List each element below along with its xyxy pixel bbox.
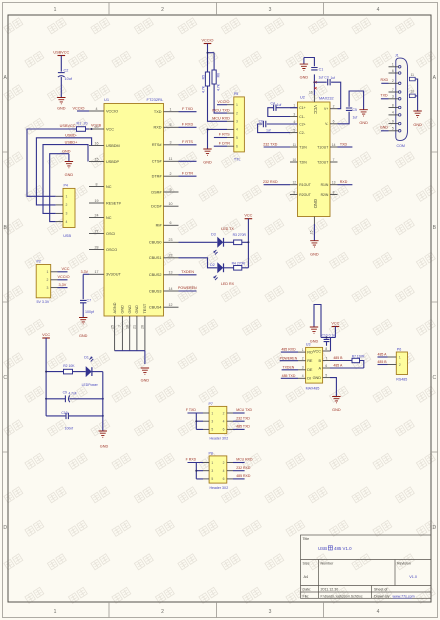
svg-text:7: 7 <box>118 325 122 327</box>
svg-text:RE: RE <box>307 359 313 363</box>
svg-text:11: 11 <box>293 143 297 147</box>
svg-text:GND: GND <box>359 121 368 125</box>
ground (C1) <box>300 64 308 70</box>
svg-text:1: 1 <box>211 411 213 415</box>
svg-text:CBUS4: CBUS4 <box>149 306 162 310</box>
svg-text:2: 2 <box>236 111 238 115</box>
pin 2 J1 <box>398 82 401 85</box>
svg-text:1uf: 1uf <box>353 116 358 120</box>
svg-text:5: 5 <box>211 477 213 481</box>
svg-text:12: 12 <box>169 303 173 307</box>
connector P2 5V 3.3V <box>36 265 51 298</box>
svg-text:GND: GND <box>79 334 88 338</box>
wire CBUS1 to LED D2 <box>179 258 218 268</box>
svg-text:F RTS: F RTS <box>219 133 230 137</box>
wire 485 TXD from P7.6 <box>233 428 245 430</box>
svg-text:6: 6 <box>236 145 238 149</box>
wire POWEREN <box>179 290 197 292</box>
svg-text:NC: NC <box>106 185 112 189</box>
pin 8 J1 <box>398 106 401 109</box>
resistor R7 120R <box>352 358 360 362</box>
svg-text:2: 2 <box>223 411 225 415</box>
wire 485 B from U3.7 <box>330 360 352 362</box>
svg-text:Number: Number <box>321 562 335 566</box>
svg-text:7: 7 <box>325 356 327 360</box>
svg-text:GND: GND <box>57 107 66 111</box>
svg-text:3: 3 <box>47 286 49 290</box>
svg-text:232 RXD: 232 RXD <box>236 466 251 470</box>
pin 9 J1 <box>398 122 401 125</box>
pin 16 VCC U2 top <box>313 95 315 102</box>
svg-text:MCU RXD: MCU RXD <box>236 458 253 462</box>
svg-text:R1OUT: R1OUT <box>299 183 311 187</box>
svg-text:14: 14 <box>169 287 173 291</box>
wire U2.15 to GND <box>313 224 315 241</box>
svg-text:485 RXD: 485 RXD <box>281 348 296 352</box>
pin 14 T1OUT U2 right <box>330 146 338 148</box>
svg-text:4: 4 <box>223 420 225 424</box>
svg-text:8: 8 <box>325 347 327 351</box>
resistor R4 270R <box>234 266 242 271</box>
pin 7 GND U1 bottom <box>121 316 123 351</box>
svg-text:COM: COM <box>397 144 405 148</box>
svg-text:F TXD: F TXD <box>182 107 193 111</box>
svg-text:TXDEN: TXDEN <box>282 365 294 369</box>
wire TXD to J1.3 <box>381 98 389 100</box>
LED D3 (TX) <box>217 237 223 248</box>
svg-text:GND: GND <box>128 305 132 314</box>
svg-text:3: 3 <box>211 420 213 424</box>
svg-text:TXDEN: TXDEN <box>181 270 194 274</box>
svg-text:1uf: 1uf <box>331 76 336 80</box>
svg-text:4: 4 <box>223 469 225 473</box>
svg-text:1: 1 <box>54 7 57 13</box>
wire TXDEN to U3.3 <box>282 369 298 371</box>
pin 16 USBDM U1 left <box>89 145 104 147</box>
wire 232 TXD to U2.11 <box>264 146 290 148</box>
svg-text:8: 8 <box>96 182 98 186</box>
pin 5 J1 <box>398 130 401 133</box>
wire shield to GND <box>415 79 417 111</box>
wire F TXD to P7 pins 1,3,5 <box>188 413 204 429</box>
wire U2.6 V- to C5 <box>338 112 350 124</box>
pin 17 3V3OUT U1 left <box>89 273 104 275</box>
svg-text:21: 21 <box>133 325 137 329</box>
power flag VCCIO <box>204 43 212 45</box>
svg-text:2011.12.30: 2011.12.30 <box>321 588 339 592</box>
svg-text:TTL: TTL <box>234 157 241 161</box>
power flag VCC (LED rail) <box>245 218 253 220</box>
svg-text:3: 3 <box>302 366 304 370</box>
svg-text:3: 3 <box>392 95 394 99</box>
wire F RTS to P5.5 <box>214 137 227 139</box>
resistor R2 10K <box>64 369 73 374</box>
pin 25 AGND U1 bottom <box>114 316 116 351</box>
svg-text:USBD-: USBD- <box>65 134 78 138</box>
svg-text:100pf: 100pf <box>85 310 94 314</box>
svg-text:4: 4 <box>236 128 238 132</box>
svg-text:485 RXD: 485 RXD <box>236 474 251 478</box>
svg-text:VCCB: VCCB <box>91 124 102 128</box>
connector P4 USB <box>63 188 75 227</box>
svg-text:VCCIO: VCCIO <box>72 106 84 110</box>
wire USBVCC to C2 <box>60 56 62 72</box>
svg-text:9: 9 <box>170 188 172 192</box>
pin 6 J1 <box>398 72 401 75</box>
svg-text:OSCO: OSCO <box>106 248 117 252</box>
svg-text:GND: GND <box>121 305 125 314</box>
pin 20 VCC U1 left <box>89 128 104 130</box>
pin 8 R2IN U2 right <box>330 194 338 196</box>
pin 14 CBUS3 U1 right <box>164 290 179 292</box>
svg-text:3: 3 <box>211 469 213 473</box>
svg-text:F DTR: F DTR <box>219 141 230 145</box>
svg-text:TXD: TXD <box>380 94 388 98</box>
svg-text:USBDM: USBDM <box>106 144 120 148</box>
svg-text:2: 2 <box>66 203 68 207</box>
pin 8 NC U1 left <box>89 186 104 188</box>
pin 21 GND U1 bottom <box>136 316 138 351</box>
wire F RXD <box>179 126 197 128</box>
ground (C7) <box>79 318 87 324</box>
wire R7 to 485 A row <box>360 361 364 369</box>
svg-text:3V3OUT: 3V3OUT <box>106 273 121 277</box>
wire P5.4 to GND <box>208 129 228 149</box>
svg-text:6: 6 <box>223 428 225 432</box>
svg-text:4: 4 <box>293 120 295 124</box>
svg-text:5: 5 <box>293 129 295 133</box>
pin 5 GND U3 right <box>323 377 330 379</box>
svg-text:6: 6 <box>170 221 172 225</box>
wire VCC to R2 <box>46 371 63 373</box>
connector P5 TTL <box>234 97 245 152</box>
svg-text:CBUS3: CBUS3 <box>149 289 162 293</box>
capacitor C7 100pf <box>80 300 86 302</box>
svg-text:USB: USB <box>318 546 327 551</box>
svg-text:DSR#: DSR# <box>151 190 162 194</box>
svg-text:DE: DE <box>307 368 313 372</box>
svg-text:15: 15 <box>95 157 99 161</box>
svg-text:23: 23 <box>169 238 173 242</box>
svg-text:19: 19 <box>95 199 99 203</box>
svg-text:232 TXD: 232 TXD <box>236 416 250 420</box>
svg-text:R1: R1 <box>77 122 82 126</box>
svg-text:VCC: VCC <box>62 267 70 271</box>
svg-text:A4: A4 <box>304 575 309 579</box>
svg-text:C2-: C2- <box>299 131 304 135</box>
wire 3V3OUT to C7 <box>83 273 89 275</box>
svg-text:MAX232: MAX232 <box>319 97 334 101</box>
resistor R3 270R <box>234 240 242 245</box>
svg-text:4.7K: 4.7K <box>202 85 206 93</box>
wire P2.3 3.3V <box>58 287 68 289</box>
svg-text:GND: GND <box>313 199 318 208</box>
wire CTS# <box>179 160 197 162</box>
svg-text:Revision: Revision <box>397 562 411 566</box>
wire F RTS <box>179 144 197 146</box>
svg-text:U1: U1 <box>104 97 110 102</box>
pin 10 T2IN U2 left <box>290 161 298 163</box>
svg-text:3.3V: 3.3V <box>59 283 67 287</box>
wire RXD from U2.13 <box>338 184 353 186</box>
svg-text:4: 4 <box>66 220 68 224</box>
wire 485 RXD to U3.1 <box>281 351 298 353</box>
pin 3 C1- U2 left <box>290 116 298 118</box>
IC U2 MAX232 <box>298 102 331 217</box>
pin 4 C2+ U2 left <box>290 123 298 125</box>
svg-text:R1IN: R1IN <box>321 183 329 187</box>
ground (U3 loop) <box>310 327 318 333</box>
wire D3 to R3 <box>224 241 234 243</box>
ground (C5) <box>359 110 367 116</box>
svg-text:10uf: 10uf <box>65 77 73 81</box>
svg-text:D2: D2 <box>210 263 215 267</box>
svg-text:6: 6 <box>223 477 225 481</box>
svg-text:C2: C2 <box>64 69 69 73</box>
svg-text:T1OUT: T1OUT <box>317 145 328 149</box>
pin 4 J1 <box>398 114 401 117</box>
pin 5 C2- U2 left <box>290 132 298 134</box>
svg-text:13: 13 <box>169 271 173 275</box>
capacitor C6 1uf between C2+ C2- <box>267 123 298 125</box>
pin 2 V+ U2 right <box>330 108 338 110</box>
connector P7 Header 3X2 <box>209 406 227 433</box>
pin 9 R2OUT U2 left <box>290 194 298 196</box>
svg-text:R6: R6 <box>216 73 220 77</box>
svg-text:6: 6 <box>325 364 327 368</box>
wire VCC rail left <box>45 338 47 416</box>
svg-text:485 TXD: 485 TXD <box>236 425 250 429</box>
resistor R6 4.7K <box>212 70 216 84</box>
svg-text:TEST: TEST <box>143 303 147 313</box>
pin 19 RESET# U1 left <box>89 202 104 204</box>
title block <box>301 535 432 598</box>
svg-text:POWEREN: POWEREN <box>178 286 197 290</box>
capacitor C4 1uf between C1+ C1- <box>276 107 297 109</box>
wire TXDEN <box>179 274 197 276</box>
wire C7 to GND <box>82 303 84 318</box>
svg-text:RS485: RS485 <box>396 378 407 382</box>
svg-text:DTR#: DTR# <box>152 175 163 179</box>
wire ground loop (U3) <box>314 305 321 338</box>
svg-text:USBD+: USBD+ <box>65 141 79 145</box>
pin 28 OSCO U1 left <box>89 249 104 251</box>
svg-text:R4 270R: R4 270R <box>232 262 246 266</box>
svg-text:TXD: TXD <box>154 110 162 114</box>
svg-text:T1IN: T1IN <box>299 145 307 149</box>
pin 6 V- U2 right <box>330 123 338 125</box>
svg-text:DI: DI <box>307 377 311 381</box>
wire right rail to GND <box>102 372 104 431</box>
svg-text:8: 8 <box>333 190 335 194</box>
svg-text:12: 12 <box>292 181 296 185</box>
wire R1 to U1.VCC <box>86 128 90 130</box>
pin 4 DI U3 left <box>298 377 306 379</box>
svg-text:VCCIO: VCCIO <box>217 100 229 104</box>
svg-text:4: 4 <box>377 609 380 615</box>
connector J1 COM DB9 <box>396 58 408 140</box>
svg-text:16: 16 <box>309 91 313 95</box>
svg-text:D3: D3 <box>211 232 216 236</box>
svg-text:7: 7 <box>333 158 335 162</box>
svg-text:DCD#: DCD# <box>151 205 162 209</box>
svg-text:RXD: RXD <box>153 126 161 130</box>
svg-text:1: 1 <box>392 63 394 67</box>
svg-text:232 TXD: 232 TXD <box>263 142 278 146</box>
pin 26 TEST U1 bottom <box>144 316 146 351</box>
svg-text:1: 1 <box>399 355 401 359</box>
svg-text:R3 270R: R3 270R <box>233 233 247 237</box>
wire C5 to GND <box>349 91 364 110</box>
pin 23 CBUS0 U1 right <box>164 241 179 243</box>
svg-text:2: 2 <box>223 461 225 465</box>
svg-text:V+: V+ <box>324 107 328 111</box>
pin 11 J1 shield <box>409 77 415 81</box>
svg-text:1: 1 <box>54 609 57 615</box>
wire 485 B to P6.2 <box>378 364 388 366</box>
ground (USB) <box>65 162 73 168</box>
pin 7 T2OUT U2 right <box>330 161 338 163</box>
svg-text:TXD: TXD <box>340 142 348 146</box>
pin 9 DSR# U1 right <box>164 191 179 193</box>
pin 7 B U3 right <box>323 360 330 362</box>
svg-text:1: 1 <box>293 104 295 108</box>
svg-text:C4: C4 <box>271 102 275 106</box>
svg-text:F RTS: F RTS <box>182 140 193 144</box>
svg-text:9: 9 <box>392 119 394 123</box>
svg-text:3: 3 <box>170 141 172 145</box>
svg-text:3: 3 <box>269 7 272 13</box>
svg-text:6: 6 <box>392 69 394 73</box>
pin 13 R1IN U2 right <box>330 184 338 186</box>
svg-text:GND: GND <box>100 445 109 449</box>
wire 485 RXD from P8.6 <box>233 478 245 480</box>
svg-text:VCCIO: VCCIO <box>58 275 70 279</box>
wire C1 to GND <box>304 58 315 67</box>
svg-text:C: C <box>432 375 436 381</box>
svg-text:1: 1 <box>47 270 49 274</box>
svg-text:5: 5 <box>170 123 172 127</box>
ground (U2.15) <box>310 241 318 247</box>
svg-text:F RXD: F RXD <box>182 123 194 127</box>
pin 4 VCCIO U1 left <box>89 110 104 112</box>
svg-text:3: 3 <box>269 609 272 615</box>
svg-text:C3: C3 <box>324 75 328 79</box>
pin 11 CTS# U1 right <box>164 160 179 162</box>
svg-text:22: 22 <box>169 254 173 258</box>
svg-text:RXD: RXD <box>381 78 389 82</box>
svg-text:4: 4 <box>96 107 98 111</box>
svg-text:4: 4 <box>392 111 394 115</box>
svg-text:Header 3X2: Header 3X2 <box>210 486 229 490</box>
LED D2 (RX) <box>217 262 223 273</box>
wire VCCIO to P5.1 <box>217 104 227 106</box>
wire 485 TXD to U3.4 <box>281 377 298 379</box>
pin 22 CBUS1 U1 right <box>164 257 179 259</box>
svg-text:2: 2 <box>333 105 335 109</box>
pin 6 RI# U1 right <box>164 224 179 226</box>
svg-text:Drawn By:: Drawn By: <box>374 594 391 598</box>
svg-text:2: 2 <box>399 363 401 367</box>
svg-text:R7 120R: R7 120R <box>352 354 365 358</box>
svg-text:5: 5 <box>325 374 327 378</box>
svg-text:VCC: VCC <box>331 321 339 325</box>
wire 232 RXD to U2.12 <box>264 184 290 186</box>
pin 3 RTS# U1 right <box>164 144 179 146</box>
wire F TXD <box>179 111 197 113</box>
svg-text:R2IN: R2IN <box>321 193 329 197</box>
svg-text:R5: R5 <box>202 75 206 79</box>
svg-text:3.3V: 3.3V <box>81 270 89 274</box>
wire C9 row <box>46 398 103 400</box>
wire R5 to MCU RXD row <box>208 86 228 121</box>
wire VCC rail <box>247 219 249 268</box>
wire MCU RXD from P8.2 <box>233 462 245 464</box>
svg-text:7: 7 <box>392 88 394 92</box>
svg-text:485 A: 485 A <box>378 352 388 356</box>
wire 232 RXD from P8.4 <box>233 470 245 472</box>
svg-text:2: 2 <box>161 7 164 13</box>
capacitor C10 0.1uf (U3) <box>326 337 328 340</box>
wire R2 to D1 <box>73 371 86 373</box>
capacitor C2 10uf <box>58 72 65 74</box>
svg-text:Title: Title <box>303 537 310 541</box>
svg-text:C7: C7 <box>87 299 92 303</box>
wire USBD- <box>36 138 91 205</box>
wire R6 to MCU TXD row <box>214 84 227 113</box>
svg-text:F TXD: F TXD <box>186 408 197 412</box>
svg-text:MCU RXD: MCU RXD <box>212 117 230 121</box>
svg-text:File:: File: <box>303 594 310 598</box>
svg-text:OSCI: OSCI <box>106 232 115 236</box>
svg-text:F:\dianzi\..\usb2com.SchDoc: F:\dianzi\..\usb2com.SchDoc <box>321 594 363 598</box>
wire USBD+ <box>43 145 88 214</box>
wire VCC to U3.8 <box>321 327 335 352</box>
svg-text:GND: GND <box>203 161 212 165</box>
svg-text:GND: GND <box>65 173 74 177</box>
pin 24 NC U1 left <box>89 217 104 219</box>
pin 2 RE U3 left <box>298 360 306 362</box>
svg-text:5V 3.3V: 5V 3.3V <box>37 300 50 304</box>
svg-text:485 V1.0: 485 V1.0 <box>334 546 352 551</box>
pin 1 TXD U1 right <box>164 111 179 113</box>
ground (J1 shield) <box>413 111 421 117</box>
svg-text:POWEREN: POWEREN <box>280 356 298 360</box>
svg-text:1uf: 1uf <box>319 76 324 80</box>
svg-text:25: 25 <box>110 325 114 329</box>
svg-text:GND: GND <box>62 150 71 154</box>
wire C2 to GND <box>60 77 62 98</box>
svg-text:4: 4 <box>377 7 380 13</box>
wire POWEREN to U3.2 <box>280 360 298 362</box>
pin 1 RO U3 left <box>298 351 306 353</box>
svg-text:Date:: Date: <box>303 588 312 592</box>
resistor R1 20 <box>77 127 86 132</box>
pin 7 J1 <box>398 91 401 94</box>
pin 12 R1OUT U2 left <box>290 184 298 186</box>
svg-text:GND: GND <box>413 123 422 127</box>
svg-text:RXD: RXD <box>340 180 348 184</box>
svg-text:V1.0: V1.0 <box>409 575 417 579</box>
svg-text:2: 2 <box>161 609 164 615</box>
svg-text:2: 2 <box>170 172 172 176</box>
svg-text:J1: J1 <box>395 54 399 58</box>
svg-text:4.7uF: 4.7uF <box>69 391 77 395</box>
svg-text:D1: D1 <box>84 356 89 360</box>
svg-text:CTS#: CTS# <box>152 160 163 164</box>
svg-text:18: 18 <box>126 325 130 329</box>
wire MCU TXD from P7.2 <box>233 412 245 414</box>
